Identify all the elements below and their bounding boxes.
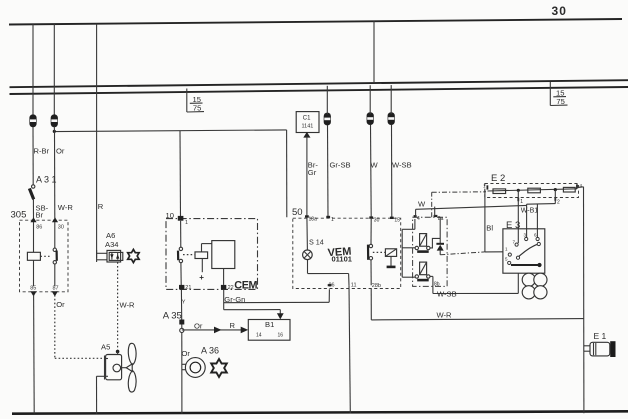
svg-text:E 2: E 2 bbox=[491, 173, 505, 184]
svg-text:S 14: S 14 bbox=[309, 238, 324, 247]
svg-text:2: 2 bbox=[557, 199, 560, 205]
svg-text:W-R: W-R bbox=[120, 301, 136, 310]
svg-text:21: 21 bbox=[185, 285, 191, 291]
svg-text:15: 15 bbox=[394, 218, 400, 224]
svg-text:Y: Y bbox=[182, 299, 186, 305]
svg-text:A5: A5 bbox=[101, 343, 110, 352]
svg-text:8b: 8b bbox=[434, 282, 440, 288]
svg-text:50: 50 bbox=[292, 207, 303, 218]
svg-text:B1: B1 bbox=[265, 320, 274, 329]
svg-text:C1: C1 bbox=[303, 116, 311, 122]
svg-text:R-Br: R-Br bbox=[34, 147, 50, 156]
svg-text:W-R: W-R bbox=[437, 311, 453, 320]
svg-text:Gr-Gn: Gr-Gn bbox=[224, 295, 245, 304]
svg-text:1141: 1141 bbox=[302, 124, 314, 130]
svg-text:A 3 1: A 3 1 bbox=[36, 175, 57, 185]
svg-text:305: 305 bbox=[11, 210, 27, 221]
svg-text:1: 1 bbox=[331, 217, 334, 223]
svg-text:87: 87 bbox=[53, 285, 59, 291]
svg-text:R: R bbox=[98, 202, 104, 211]
svg-text:30: 30 bbox=[552, 4, 568, 18]
svg-text:Bl: Bl bbox=[486, 223, 493, 232]
svg-text:Gr-SB: Gr-SB bbox=[330, 161, 351, 170]
svg-text:R: R bbox=[230, 321, 236, 330]
svg-text:18a: 18a bbox=[309, 217, 318, 223]
svg-text:1: 1 bbox=[185, 220, 188, 226]
svg-text:30: 30 bbox=[374, 217, 380, 223]
svg-text:30: 30 bbox=[58, 224, 64, 230]
svg-text:Or: Or bbox=[56, 147, 65, 156]
svg-text:15: 15 bbox=[193, 95, 201, 104]
svg-text:A 36: A 36 bbox=[201, 346, 219, 356]
svg-text:W-SB: W-SB bbox=[392, 161, 412, 170]
svg-text:W-SB: W-SB bbox=[437, 289, 457, 298]
svg-text:W: W bbox=[371, 161, 379, 170]
svg-text:75: 75 bbox=[556, 97, 564, 106]
svg-text:86: 86 bbox=[36, 224, 42, 230]
svg-text:Or: Or bbox=[194, 321, 203, 330]
svg-text:+: + bbox=[199, 273, 204, 282]
svg-text:W: W bbox=[418, 200, 426, 209]
svg-text:28b: 28b bbox=[372, 283, 381, 289]
svg-text:01101: 01101 bbox=[332, 255, 352, 264]
svg-text:11: 11 bbox=[351, 283, 357, 289]
svg-text:16: 16 bbox=[278, 333, 284, 339]
svg-text:CEM: CEM bbox=[234, 280, 257, 292]
svg-text:22: 22 bbox=[228, 285, 234, 291]
svg-text:4: 4 bbox=[417, 216, 420, 222]
svg-text:E 1: E 1 bbox=[594, 331, 607, 341]
svg-text:Or: Or bbox=[182, 349, 191, 358]
svg-text:A6: A6 bbox=[106, 231, 115, 240]
svg-text:Br: Br bbox=[36, 210, 44, 219]
svg-text:W-B1: W-B1 bbox=[521, 208, 538, 215]
svg-text:75: 75 bbox=[193, 104, 201, 113]
svg-text:15: 15 bbox=[556, 89, 564, 98]
svg-text:85: 85 bbox=[30, 285, 36, 291]
svg-text:Gr: Gr bbox=[308, 168, 317, 177]
svg-text:14: 14 bbox=[256, 333, 262, 339]
svg-text:Or: Or bbox=[56, 300, 65, 309]
svg-text:W-R: W-R bbox=[58, 203, 74, 212]
svg-text:A34: A34 bbox=[105, 240, 119, 249]
svg-text:A 35: A 35 bbox=[163, 311, 182, 322]
svg-text:1: 1 bbox=[520, 199, 523, 205]
